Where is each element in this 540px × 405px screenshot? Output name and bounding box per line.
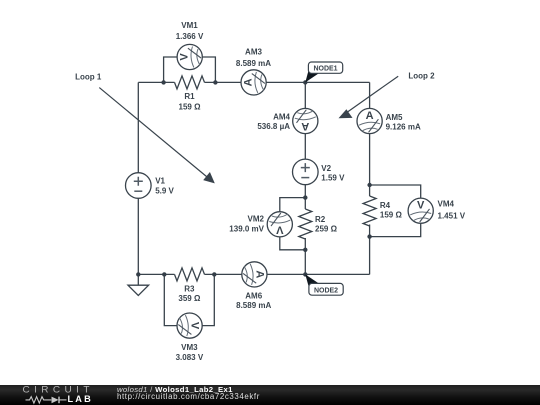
wire top right horizontal [266,81,369,83]
wire VM4 bracket bottom [370,224,421,237]
loop 1 annotation arrow [75,72,215,183]
svg-text:VM2: VM2 [248,215,265,224]
svg-text:V2: V2 [321,164,331,173]
junction dot R1 right [213,80,217,84]
junction dot R2 top [303,195,307,199]
junction dot R3 left [162,272,166,276]
footer title line [117,386,233,394]
wire VM1 bracket right [202,57,215,82]
wire VM3 bracket left [164,274,177,325]
svg-text:536.8 µA: 536.8 µA [257,122,290,131]
svg-text:A: A [301,120,309,132]
resistor R3 [175,268,205,303]
node flag NODE2 [305,274,343,295]
svg-text:AM5: AM5 [386,113,403,122]
ammeter AM4 [257,108,318,133]
footer url line [117,393,260,401]
svg-text:R3: R3 [184,285,195,294]
junction dot R2 bottom [303,248,307,252]
svg-text:AM4: AM4 [273,112,290,121]
wire V2 to R2 top junction [304,185,306,209]
wire bottom right horizontal [267,273,370,275]
voltmeter VM2 [229,212,292,237]
voltmeter VM1 [176,21,204,69]
svg-text:8.589 mA: 8.589 mA [236,301,271,310]
wire bottom mid horizontal [205,273,242,275]
svg-text:NODE1: NODE1 [313,66,337,73]
junction dot R4 top [367,183,371,187]
resistor R2 [299,209,338,239]
footer bar [0,385,540,405]
svg-text:R1: R1 [184,92,195,101]
voltmeter VM4 [408,198,466,223]
svg-text:VM1: VM1 [181,21,198,30]
junction dot ground [136,272,140,276]
svg-text:V: V [179,53,191,61]
circuitlab logo schematic glyph and LAB [0,385,110,405]
svg-text:AM3: AM3 [245,48,262,57]
node NODE2 junction dot [303,272,307,276]
wire AM5 to R4 top junction [369,134,371,196]
voltage source V2 [293,159,346,185]
svg-text:3.083 V: 3.083 V [176,353,204,362]
wire left vertical lower [137,198,139,274]
svg-text:139.0 mV: 139.0 mV [229,225,264,234]
svg-text:8.589 mA: 8.589 mA [236,59,271,68]
svg-text:V1: V1 [155,177,165,186]
svg-text:1.59 V: 1.59 V [321,173,345,182]
ammeter AM6 [236,262,271,310]
wire R2 bottom stub [304,238,306,274]
resistor R4 [363,196,402,226]
wire right vertical corner to AM5 [369,82,371,108]
svg-text:5.9 V: 5.9 V [155,187,174,196]
ground [128,274,149,295]
svg-text:AM6: AM6 [245,292,262,301]
ammeter AM5 [357,108,421,133]
wire mid vertical node1 to AM4 [304,82,306,108]
node NODE1 junction dot [303,80,307,84]
svg-text:A: A [253,270,265,278]
svg-text:159 Ω: 159 Ω [380,211,403,220]
svg-text:VM4: VM4 [438,199,455,208]
junction dot R3 right [212,272,216,276]
resistor R1 [175,76,205,112]
svg-text:VM3: VM3 [181,343,198,352]
ammeter AM3 [236,48,271,95]
wire left vertical upper [137,82,139,172]
wire VM1 bracket left [164,57,178,82]
voltage source V1 [126,173,175,199]
svg-text:Loop 1: Loop 1 [75,72,102,81]
wire VM2 bracket bottom [280,237,306,250]
svg-text:1.366 V: 1.366 V [176,32,204,41]
wire bottom left horizontal [138,273,174,275]
wire top left horizontal [138,81,174,83]
node flag NODE1 [305,62,342,82]
circuitlab logo wordmark CIRCUIT [23,387,94,394]
svg-text:NODE2: NODE2 [314,287,338,294]
wire VM3 bracket right [202,274,214,325]
junction dot R1 left [161,80,165,84]
svg-text:A: A [243,78,255,86]
svg-text:9.126 mA: 9.126 mA [386,123,421,132]
voltmeter VM3 [176,313,204,362]
junction dot R4 bottom [367,234,371,238]
wire R4 bottom to corner [369,225,371,275]
svg-text:1.451 V: 1.451 V [438,211,466,220]
wire top mid horizontal [205,81,242,83]
wire AM4 to V2 [304,134,306,160]
svg-text:A: A [366,110,374,122]
svg-text:V: V [417,200,425,212]
loop 2 annotation arrow [339,72,436,119]
svg-text:V: V [189,322,201,330]
svg-text:259 Ω: 259 Ω [315,224,338,233]
svg-text:R2: R2 [315,215,326,224]
svg-text:359 Ω: 359 Ω [178,294,201,303]
svg-text:Loop 2: Loop 2 [408,72,435,81]
wire VM2 bracket top [280,198,306,212]
svg-text:R4: R4 [380,201,391,210]
svg-text:V: V [275,223,283,235]
wire VM4 bracket top [370,185,421,198]
svg-text:159 Ω: 159 Ω [179,103,202,112]
